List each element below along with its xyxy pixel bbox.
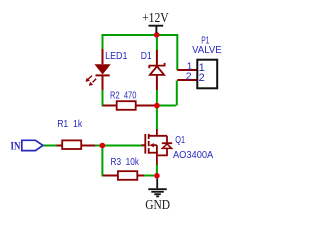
svg-text:2: 2 [186, 70, 192, 82]
svg-text:GND: GND [145, 198, 170, 213]
svg-text:Q1: Q1 [175, 134, 185, 146]
svg-text:+12V: +12V [142, 11, 169, 26]
svg-text:LED1: LED1 [105, 50, 128, 62]
svg-text:R2 470: R2 470 [110, 90, 137, 102]
svg-text:R3 10k: R3 10k [111, 156, 140, 168]
svg-text:R1 1k: R1 1k [57, 118, 83, 130]
svg-text:VALVE: VALVE [192, 44, 222, 56]
svg-text:IN: IN [11, 141, 21, 153]
svg-text:D1: D1 [141, 50, 152, 62]
svg-text:AO3400A: AO3400A [173, 149, 213, 161]
svg-text:2: 2 [199, 72, 205, 84]
